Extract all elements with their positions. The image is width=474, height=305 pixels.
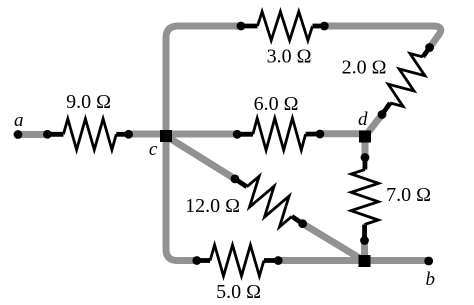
svg-text:5.0 Ω: 5.0 Ω xyxy=(216,281,261,303)
svg-text:c: c xyxy=(149,139,158,160)
svg-text:2.0 Ω: 2.0 Ω xyxy=(342,57,387,79)
svg-text:12.0 Ω: 12.0 Ω xyxy=(185,195,240,217)
svg-text:b: b xyxy=(426,269,436,290)
svg-text:7.0 Ω: 7.0 Ω xyxy=(386,184,431,206)
svg-text:3.0 Ω: 3.0 Ω xyxy=(267,45,312,67)
svg-text:9.0 Ω: 9.0 Ω xyxy=(66,91,111,113)
svg-text:a: a xyxy=(14,110,24,131)
svg-text:d: d xyxy=(358,109,368,130)
svg-text:6.0 Ω: 6.0 Ω xyxy=(254,93,299,115)
